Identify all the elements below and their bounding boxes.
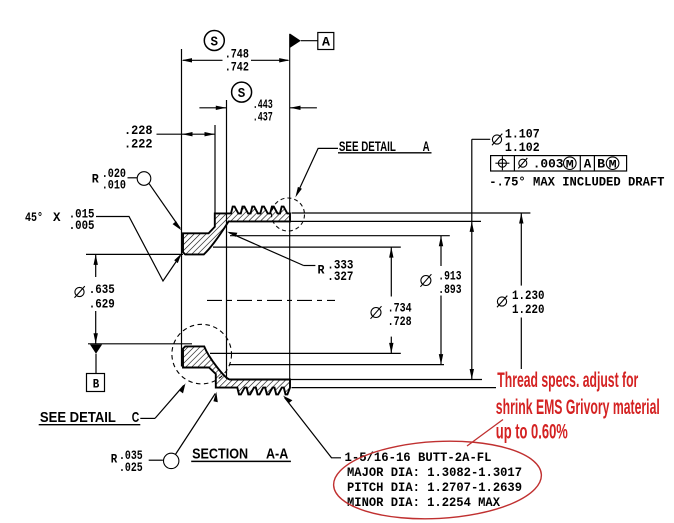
svg-text:.222: .222	[124, 137, 153, 152]
svg-text:M: M	[566, 159, 574, 171]
extension line x=215	[214, 125, 216, 213]
svg-text:A: A	[584, 157, 592, 172]
svg-text:S: S	[211, 35, 219, 50]
svg-text:.742: .742	[225, 60, 249, 75]
svg-text:M: M	[609, 159, 617, 171]
svg-text:1.102: 1.102	[505, 140, 540, 155]
svg-text:MAJOR DIA: 1.3082-1.3017: MAJOR DIA: 1.3082-1.3017	[347, 465, 522, 480]
dia .913/.893 dimension	[440, 236, 442, 365]
M circle 1	[564, 157, 577, 170]
svg-text:SECTION: SECTION	[192, 446, 248, 463]
svg-text:.629: .629	[89, 297, 115, 312]
svg-text:C: C	[132, 409, 140, 426]
leader to detail A	[318, 147, 338, 149]
svg-text:shrink EMS Grivory material: shrink EMS Grivory material	[496, 396, 660, 419]
red ellipse	[332, 436, 544, 523]
dia 1.107/1.102 dimension w/ leader	[472, 138, 490, 140]
svg-text:up to 0.60%: up to 0.60%	[496, 421, 568, 444]
svg-text:A: A	[322, 35, 330, 50]
svg-text:S: S	[238, 87, 246, 102]
svg-text:1-5/16-16 BUTT-2A-FL: 1-5/16-16 BUTT-2A-FL	[345, 450, 492, 465]
svg-text:.025: .025	[119, 460, 143, 475]
position symbol	[498, 159, 506, 167]
dia .635/.629 dimension	[95, 254, 97, 343]
svg-text:R: R	[318, 262, 325, 277]
bore line extension bottom	[290, 379, 482, 381]
svg-text:B: B	[597, 157, 605, 172]
dimension .443/.437	[199, 107, 317, 109]
svg-text:.893: .893	[438, 282, 461, 297]
svg-text:.437: .437	[253, 109, 273, 124]
detail A dashed circle	[272, 198, 305, 231]
datum A flag	[290, 33, 301, 48]
svg-text:MINOR DIA: 1.2254 MAX: MINOR DIA: 1.2254 MAX	[347, 495, 500, 510]
S symbol 2	[232, 82, 252, 102]
svg-text:R: R	[92, 171, 99, 186]
dia .635 bottom ext line	[88, 343, 192, 345]
svg-text:Thread specs. adjust for: Thread specs. adjust for	[497, 369, 638, 392]
dia .734 bottom line	[210, 352, 401, 354]
datum B symbol	[90, 345, 102, 354]
feature control frame	[491, 156, 627, 171]
svg-text:A-A: A-A	[266, 446, 288, 463]
dia .913 bottom line	[229, 364, 444, 366]
dia .734 top line	[213, 246, 401, 248]
svg-text:1.220: 1.220	[512, 302, 545, 317]
extension line x=226.5	[226, 100, 228, 379]
svg-text:.005: .005	[69, 218, 95, 233]
svg-text:B: B	[93, 376, 100, 391]
dia .734/.728 dimension	[390, 247, 392, 353]
svg-text:A: A	[423, 139, 430, 154]
svg-text:R: R	[111, 452, 118, 467]
svg-text:SEE DETAIL: SEE DETAIL	[40, 409, 116, 426]
part upper section (hatched)	[183, 207, 290, 255]
dimension .748/.742	[183, 59, 288, 61]
dimension .228/.222	[157, 133, 216, 135]
svg-text:45°: 45°	[25, 210, 43, 225]
svg-text:.728: .728	[388, 314, 412, 329]
thread spec leader	[285, 398, 342, 458]
svg-text:PITCH DIA: 1.2707-1.2639: PITCH DIA: 1.2707-1.2639	[347, 480, 522, 495]
svg-text:.327: .327	[327, 269, 353, 284]
svg-text:1.230: 1.230	[512, 288, 545, 303]
extension line left x=181.5	[181, 49, 183, 367]
S symbol 1	[204, 31, 224, 51]
red leader to ellipse	[467, 420, 503, 447]
svg-text:.003: .003	[533, 157, 564, 172]
long line x=289.7 datum A / end face	[289, 34, 291, 388]
svg-text:SEE DETAIL: SEE DETAIL	[339, 139, 396, 154]
bore line extension top	[290, 220, 481, 222]
svg-text:.010: .010	[102, 178, 126, 193]
dia .913 top line	[230, 235, 450, 237]
dia 1.230/1.220 dimension	[520, 213, 522, 369]
M circle 2	[606, 157, 619, 170]
dia .635 top ext line	[86, 253, 183, 255]
dia symbol in frame	[519, 159, 527, 167]
svg-text:-.75° MAX INCLUDED DRAFT: -.75° MAX INCLUDED DRAFT	[489, 174, 664, 189]
root line extension top	[292, 212, 531, 214]
centerline	[207, 299, 335, 301]
svg-text:.635: .635	[89, 282, 115, 297]
part lower section (hatched)	[183, 346, 290, 394]
detail C dashed circle	[172, 324, 232, 384]
root line extension bottom	[292, 387, 497, 389]
svg-text:X: X	[53, 210, 61, 225]
